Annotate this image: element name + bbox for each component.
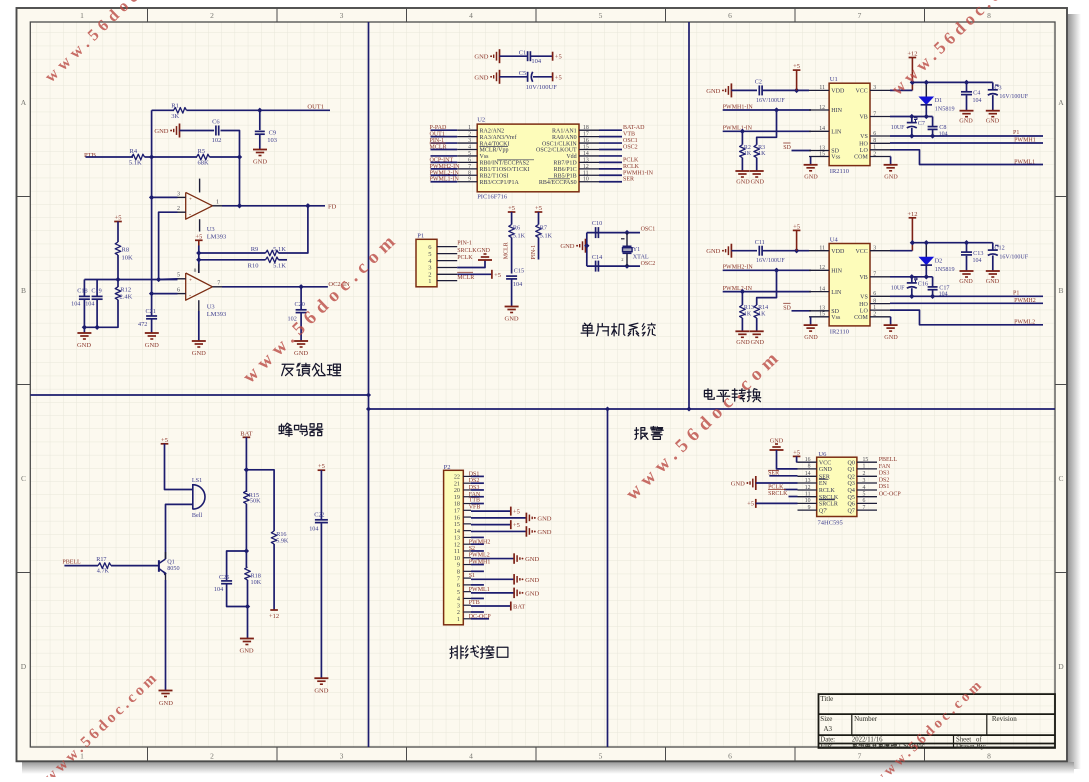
wire +5 to R6 [511,212,513,225]
svg-text:RB3/CCP1/P1A: RB3/CCP1/P1A [480,180,520,186]
pin 12 U4 [809,269,829,271]
pin 5 stub U3B [178,278,186,280]
wire VB [890,276,933,278]
wire +5 to R7 [538,212,540,225]
power port +5 at P2 pin17 [510,507,512,516]
wire C6 to feedback node [221,131,240,158]
svg-text:PIC16F716: PIC16F716 [477,194,508,201]
svg-text:GND: GND [474,74,488,81]
wire BAT down [245,437,247,492]
svg-text:16V/100UF: 16V/100UF [756,258,785,264]
wire U2 pin 1 [431,129,458,131]
svg-text:Q7': Q7' [819,508,827,514]
resistor R15 [244,491,250,504]
svg-text:5: 5 [599,752,603,761]
svg-text:PWMH1: PWMH1 [1014,138,1036,144]
svg-text:VDD: VDD [831,249,845,255]
pin 11 U1 [809,89,829,91]
ground GND under R13 [735,330,749,332]
svg-text:2022/11/16: 2022/11/16 [852,737,883,744]
pin 1 output stub U3A [213,205,223,207]
pin 6 P2 [463,584,471,586]
svg-text:SER: SER [623,177,634,183]
power port +5 at U6 VCC [793,455,801,457]
wire U2 pin 3 [431,142,458,144]
ground GND under U4 COM [889,316,892,318]
svg-text:6: 6 [728,752,732,761]
svg-text:2: 2 [873,312,876,318]
svg-text:PWML1: PWML1 [469,587,490,593]
svg-text:P2: P2 [444,464,451,471]
svg-text:4: 4 [469,11,473,20]
svg-text:16: 16 [583,138,589,144]
pin 3 U2 [457,142,477,144]
svg-text:GND: GND [537,529,551,536]
svg-text:21: 21 [454,480,460,487]
svg-text:+5: +5 [793,449,800,456]
svg-text:16V/100UF: 16V/100UF [999,94,1028,100]
svg-text:9: 9 [468,177,471,183]
svg-text:104: 104 [513,281,522,288]
resistor R14 [754,305,760,318]
svg-text:8: 8 [873,298,876,304]
svg-text:VS: VS [860,134,868,140]
wire pin6 from PTB vertical [152,197,178,293]
wire P2 pin 1 [471,618,489,620]
svg-text:RB6/P1C: RB6/P1C [554,167,577,173]
svg-text:VB: VB [859,115,867,121]
wire P2 pin 22 [471,475,484,477]
wire P2 pin 14 to GND [471,530,526,532]
svg-text:2: 2 [873,151,876,157]
svg-text:Sheet: Sheet [956,736,971,743]
svg-text:PWMH2: PWMH2 [469,540,491,546]
svg-text:GND: GND [804,174,818,181]
pin 8 U1 [870,142,890,144]
svg-text:50K: 50K [250,498,261,505]
svg-text:PWMH1-IN: PWMH1-IN [623,170,654,176]
section title 排线接口 [450,646,464,659]
svg-text:RB0/INT/ECCPAS2: RB0/INT/ECCPAS2 [480,161,529,167]
node junction HIN pulldown [774,268,779,273]
pin 6 U6 [857,502,877,504]
buzzer LS1 [192,484,194,510]
svg-text:1: 1 [873,145,876,151]
wire C6 node down to output [239,157,241,206]
svg-text:R4: R4 [130,148,138,155]
pin 4 U6 [857,489,877,491]
pin 11 U2 [579,174,599,176]
svg-text:Bell: Bell [192,512,203,519]
pin 6 U1 [870,135,890,137]
svg-text:A: A [21,98,27,107]
pin 3 U6 [857,482,877,484]
power port +5 at U4 VDD [793,229,801,231]
wire P2 pin 3 to BAT [471,605,511,607]
svg-text:3: 3 [468,138,471,144]
svg-text:14: 14 [819,286,825,292]
pin 13 P2 [463,536,471,538]
svg-text:VTB: VTB [623,132,635,138]
svg-text:RA2/AN2: RA2/AN2 [480,128,505,134]
svg-text:-: - [189,292,191,299]
svg-text:GND: GND [884,334,898,341]
pin 2 stub U3A [178,211,186,213]
svg-text:6: 6 [177,287,180,293]
node junction R9 tap [196,250,201,255]
resistor R1 [174,108,187,114]
svg-text:+: + [189,196,192,202]
svg-text:Vss: Vss [831,315,841,321]
svg-text:GND: GND [537,515,551,522]
pin 2 U2 [457,136,477,138]
svg-text:18: 18 [583,125,589,131]
node junction LIN pulldown [740,129,745,134]
svg-text:VCC: VCC [855,89,867,95]
svg-text:5.1K: 5.1K [513,233,526,240]
svg-text:22: 22 [454,474,460,481]
wire P2 pin 10 to GND [471,558,514,560]
wire U2 pin 5 [431,155,458,157]
wire R9 to output node [279,206,308,253]
svg-text:RA4/T0CKI: RA4/T0CKI [480,141,510,147]
transistor Q1 8050 [158,560,160,572]
wire U2 pin 6 [431,161,458,163]
svg-text:OUT1: OUT1 [430,132,445,138]
capacitor C1 [527,51,529,61]
svg-text:LIN: LIN [831,290,842,296]
svg-text:Q2: Q2 [848,475,855,481]
svg-text:PBELL: PBELL [879,457,898,463]
svg-text:16V/100UF: 16V/100UF [999,255,1028,261]
svg-text:P1: P1 [1013,290,1019,296]
wire C9 to ground [259,134,261,149]
svg-text:DS1: DS1 [469,471,480,477]
svg-text:Q1: Q1 [848,467,855,473]
svg-text:16V/100UF: 16V/100UF [756,98,785,104]
svg-text:Vss: Vss [831,155,841,161]
svg-text:of: of [976,736,982,743]
pin 16 U6 [798,461,817,463]
svg-text:3: 3 [873,85,876,91]
svg-text:GND: GND [986,278,1000,285]
svg-text:8050: 8050 [167,565,179,572]
svg-text:PIN-1: PIN-1 [457,240,472,246]
svg-text:C25: C25 [219,574,229,581]
svg-text:Q7: Q7 [848,508,855,514]
wire GND to C5 [500,76,528,78]
wire PTB to R4 [86,156,134,158]
pin 5 P2 [463,591,471,593]
wire P2 pin 2 [471,611,484,613]
svg-text:File:: File: [820,743,833,750]
pin 2 U1 [870,156,890,158]
wire R9 line [199,252,266,254]
svg-text:LS1: LS1 [192,477,202,484]
svg-text:IR2110: IR2110 [830,328,849,335]
resistor R12 [117,280,119,288]
svg-text:103: 103 [267,137,277,144]
power port GND at crystal [585,239,587,253]
wire +5 down to R9 R10 and op-amp2 pin8 [198,240,200,245]
svg-text:14: 14 [805,471,811,477]
svg-text:2: 2 [621,257,623,262]
wire C19 to gnd rail [96,299,98,327]
svg-text:FAN: FAN [879,464,891,470]
node junction LIN pulldown [740,289,745,294]
wire HIN [723,109,811,111]
capacitor C7 10UF [911,117,913,123]
svg-text:104: 104 [71,301,80,308]
svg-text:U2: U2 [477,117,485,124]
svg-text:1: 1 [873,305,876,311]
svg-text:COM: COM [854,315,868,321]
svg-text:5.1K: 5.1K [273,246,286,253]
svg-text:+5: +5 [494,272,501,279]
svg-text:DC-OCP: DC-OCP [469,614,492,620]
wire P2 pin 4 [471,597,484,599]
svg-text:7: 7 [858,11,862,20]
wire R7 net PIN-1 [538,238,540,260]
wire R12 down and left to ground [84,300,119,328]
ground GND under U3B [192,340,206,342]
power port +12 at U4 [909,217,917,219]
svg-text:HIN: HIN [831,269,842,275]
wire C18 to gnd rail [83,299,85,327]
svg-text:Q4: Q4 [848,488,855,494]
svg-text:10K: 10K [251,579,262,586]
title block row lines [819,713,1056,715]
node junction C21 tap [149,291,154,296]
wire HIN elbow to R3 [757,110,777,145]
wire P1 pin2 to +5 [457,273,492,275]
svg-text:P-PAD: P-PAD [430,125,447,131]
power port GND at C11 [730,244,732,258]
capacitor C3 16V/100UF [992,82,994,89]
node junction +5 on VDD wire [794,248,799,253]
svg-text:OC-OCP: OC-OCP [879,491,902,497]
svg-text:5: 5 [863,492,866,498]
svg-text:+5: +5 [115,215,122,222]
svg-text:4: 4 [457,596,460,603]
resistor R9 [266,250,279,256]
pin 1 P1 [437,280,457,282]
svg-text:GND: GND [77,342,91,349]
power port +5 at U1 VDD [793,69,801,71]
svg-text:4: 4 [468,145,471,151]
svg-text:LM393: LM393 [207,311,227,318]
svg-text:C4: C4 [973,90,980,97]
IC U2 PIC16F716 [477,124,579,192]
pin 17 U2 [579,136,599,138]
svg-text:R14: R14 [758,305,768,311]
pin 4 P2 [463,597,471,599]
pin 15 P2 [463,523,471,525]
svg-text:+5: +5 [161,437,168,444]
svg-text:D: D [1058,662,1064,671]
svg-text:C5: C5 [519,70,527,77]
svg-text:102: 102 [212,137,222,144]
svg-text:GND: GND [505,316,519,323]
svg-text:11: 11 [819,246,825,252]
section title 单片机系统 [581,323,594,336]
svg-text:TTB: TTB [469,498,480,504]
node junction R5/C6 [237,154,242,159]
wire U2 pin 18 [599,129,622,131]
svg-text:104: 104 [214,586,223,593]
op-amp U3A [186,192,213,219]
svg-text:HIN: HIN [831,108,842,114]
pin 8 U6 [798,468,817,470]
svg-text:VDD: VDD [831,89,845,95]
svg-text:1K: 1K [758,151,766,157]
pin 16 U2 [579,142,599,144]
svg-text:R7: R7 [540,224,547,231]
IC U1 IR2110 [829,83,870,165]
capacitor C20 [300,287,302,310]
section divider vertical V2 [688,22,690,409]
border zone ticks [147,8,149,22]
node junction C19 bottom [94,325,99,330]
pin 14 U2 [579,155,599,157]
svg-text:1K: 1K [758,312,766,318]
svg-text:8: 8 [808,464,811,470]
pin 14 U4 [809,291,829,293]
section divider vertical V3 [607,409,609,747]
svg-text:OSC1: OSC1 [623,138,638,144]
pin 13 U1 [809,150,829,152]
svg-text:U3: U3 [207,304,215,311]
pin name decoration lines U2 [480,145,509,147]
power port GND at U6 EN [755,476,757,490]
ground GND under C12 [986,270,1000,272]
svg-text:R13: R13 [744,305,754,311]
svg-text:7: 7 [468,164,471,170]
svg-text:11: 11 [454,548,460,555]
pin 3 P1 [437,267,457,269]
svg-text:472: 472 [138,321,147,328]
svg-text:OSC2: OSC2 [641,261,656,267]
wire SD to pin13 [792,310,812,312]
svg-text:74HC595: 74HC595 [818,520,843,527]
svg-text:RB5/P1B: RB5/P1B [554,173,577,179]
wire divider rail [84,279,177,281]
wire pin2 corner [159,212,178,279]
svg-text:MCLR: MCLR [457,275,474,281]
pin 8 U4 [870,303,890,305]
svg-text:GND: GND [294,350,308,357]
pin 3 P2 [463,604,471,606]
svg-text:5: 5 [177,273,180,279]
wire junction to R5 [152,156,197,158]
svg-text:Drawn By:: Drawn By: [956,743,986,750]
power port +5 at C5 [552,72,554,81]
pin 15 U6 [857,461,877,463]
wire C20 to ground [300,313,302,341]
pin 12 U6 [798,489,817,491]
svg-text:104: 104 [973,98,982,104]
pin 11 U4 [809,250,829,252]
pin 14 U1 [809,130,829,132]
wire GND to C2 [731,89,757,91]
svg-text:15: 15 [583,145,589,151]
ground GND above P1 pin3 [478,259,492,261]
svg-text:PCLK: PCLK [457,255,473,261]
wire R5 to C6 node [210,156,240,158]
wire VCC [890,250,912,252]
svg-text:OSC1: OSC1 [641,227,656,233]
svg-text:+5: +5 [513,522,520,529]
diode D2 1N5819 [925,243,927,257]
svg-text:FD: FD [328,204,337,211]
capacitor C21 [151,294,153,316]
svg-text:GND: GND [736,339,750,346]
capacitor C11 16V/100UF [758,246,760,256]
ground GND under C22 [314,677,328,679]
svg-text:GND: GND [474,54,488,61]
svg-text:1: 1 [468,125,471,131]
svg-text:104: 104 [973,258,982,264]
section title 蜂鸣器 [279,423,292,436]
svg-text:PCLK: PCLK [623,157,639,163]
wire pin5 [159,278,178,281]
ground GND under C4 [960,110,974,112]
resistor R10 [266,257,279,263]
svg-text:1: 1 [457,616,460,623]
svg-text:MCLR: MCLR [430,145,447,151]
power port BAT at P2 pin3 [510,602,512,611]
wire C21 to ground [151,319,153,333]
svg-text:D: D [21,662,27,671]
wire HO rail [890,302,1043,304]
svg-text:14: 14 [583,151,589,157]
capacitor C15 [506,275,517,277]
svg-text:8: 8 [468,170,471,176]
svg-text:17: 17 [454,508,460,515]
pin 15 U4 [809,316,829,318]
wire SD to pin13 [792,150,812,152]
svg-text:R8: R8 [122,247,130,254]
wire P2 pin 15 to +5 [471,524,511,526]
svg-text:10: 10 [805,498,811,504]
ground GND under Q1 [159,690,173,692]
pin 9 U2 [457,181,477,183]
svg-text:10: 10 [583,177,589,183]
svg-text:OSC2: OSC2 [623,145,638,151]
diode D1 1N5819 [925,82,927,96]
wire R1 top [152,109,174,111]
svg-text:1N5819: 1N5819 [935,266,955,273]
svg-text:MCLR/Vpp: MCLR/Vpp [480,148,509,154]
svg-text:+5: +5 [195,233,202,240]
wire R4 to junction [145,156,152,158]
power port GND at P2 pin5 [513,588,515,599]
pin 7 P2 [463,577,471,579]
svg-text:PIN-1: PIN-1 [531,245,537,260]
ground GND under U4 Vss [810,317,812,325]
svg-text:HO: HO [859,142,868,148]
svg-text:6: 6 [873,291,876,297]
wire R17 to base [111,565,159,567]
resistor R18 [245,567,251,580]
svg-text:DS3: DS3 [879,471,890,477]
wire U2 pin 12 [599,168,622,170]
wire C22 to ground [320,523,322,677]
svg-text:+5: +5 [555,54,562,61]
wire R18 to ground [247,580,249,638]
svg-text:2: 2 [177,206,180,212]
wire +5 to buzzer [165,444,193,490]
